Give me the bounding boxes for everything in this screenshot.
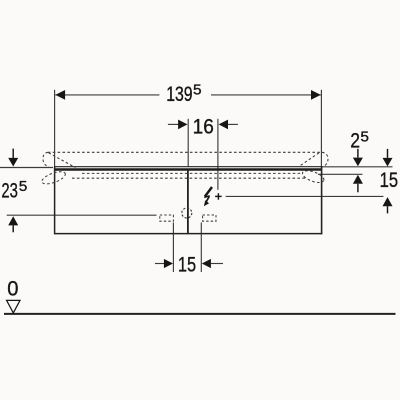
dimension 139.5 extension line left <box>54 90 56 167</box>
water connection dashed box right <box>203 215 216 221</box>
arrow 139.5 right <box>311 90 321 100</box>
dimension 16 line left <box>168 123 179 125</box>
washbasin hidden left diagonal <box>49 153 76 168</box>
arrow 15 bottom right <box>202 259 211 268</box>
washbasin slab top line <box>54 166 322 168</box>
svg-text:0: 0 <box>7 277 18 300</box>
arrow 16 right <box>219 120 228 130</box>
arrow 23.5 bottom (up) <box>8 216 18 225</box>
dimension 2.5 arrow up <box>353 175 363 184</box>
cabinet centre divider <box>187 171 189 234</box>
washbasin hidden outline top (dashed) <box>48 151 323 153</box>
svg-text:5: 5 <box>360 130 369 146</box>
svg-text:23: 23 <box>1 180 18 203</box>
arrow 16 left <box>178 120 187 130</box>
dimension 23.5 bottom reference line <box>7 214 157 216</box>
washbasin hidden left bottom loop <box>40 169 66 186</box>
dimension 15 bottom extension line right <box>200 223 202 273</box>
electrical connection lightning bolt <box>205 187 212 197</box>
dimension 15 bottom line right <box>211 263 223 265</box>
arrow 15 bottom left <box>164 259 173 268</box>
dimension 139.5 extension line right <box>320 90 322 167</box>
floor line <box>4 313 396 315</box>
reference line electrical connection <box>226 195 384 197</box>
washbasin hidden right corner arc <box>322 152 328 167</box>
dimension 15 right arrow up <box>383 197 393 206</box>
svg-text:16: 16 <box>193 115 214 138</box>
washbasin hidden bottom line B <box>72 177 305 179</box>
washbasin hidden right diagonal <box>299 153 319 167</box>
arrow 23.5 top (down) <box>12 149 14 158</box>
cabinet top edge (thick) <box>54 168 322 171</box>
cabinet left edge <box>54 167 56 235</box>
svg-text:5: 5 <box>193 82 202 98</box>
datum level triangle <box>7 300 20 313</box>
svg-text:15: 15 <box>380 169 399 192</box>
dimension 15 bottom line left <box>155 263 164 265</box>
washbasin hidden right bottom loop <box>301 168 325 185</box>
water connection dashed box left <box>160 215 174 221</box>
dimension 2.5 arrow down <box>357 149 359 158</box>
dimension 16 line right <box>228 123 238 125</box>
svg-text:5: 5 <box>19 179 28 195</box>
reference line top right (washbasin top extended) <box>322 166 393 168</box>
cabinet bottom edge <box>54 233 322 235</box>
washbasin hidden left corner arc <box>43 152 49 167</box>
electrical connection cross mark <box>215 195 222 197</box>
drain hole dashed circle <box>182 208 192 218</box>
washbasin hidden bottom line A <box>82 172 302 174</box>
dimension 139.5 line left segment <box>55 94 159 96</box>
dimension 15 bottom extension line left <box>172 223 174 273</box>
svg-text:15: 15 <box>178 253 196 276</box>
dimension 139.5 line right segment <box>211 94 321 96</box>
dimension 16 extension line right <box>217 119 219 190</box>
reference line washbasin bottom right <box>318 173 363 175</box>
dimension 16 extension line left <box>187 119 189 167</box>
cabinet right edge <box>321 167 323 235</box>
svg-text:2: 2 <box>350 130 360 153</box>
dimension 23.5 top reference line <box>0 167 53 169</box>
svg-text:139: 139 <box>166 83 192 106</box>
arrow 139.5 left <box>55 90 65 100</box>
dimension 15 right arrow down <box>387 149 389 158</box>
